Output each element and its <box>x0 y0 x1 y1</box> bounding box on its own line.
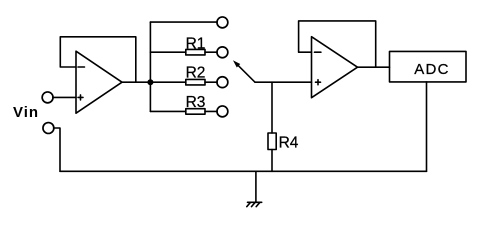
svg-text:R4: R4 <box>279 134 299 151</box>
svg-text:R2: R2 <box>186 65 206 82</box>
svg-text:Vin: Vin <box>13 104 39 121</box>
svg-text:ADC: ADC <box>414 61 450 78</box>
svg-text:R1: R1 <box>186 35 206 52</box>
svg-text:R3: R3 <box>186 94 206 111</box>
